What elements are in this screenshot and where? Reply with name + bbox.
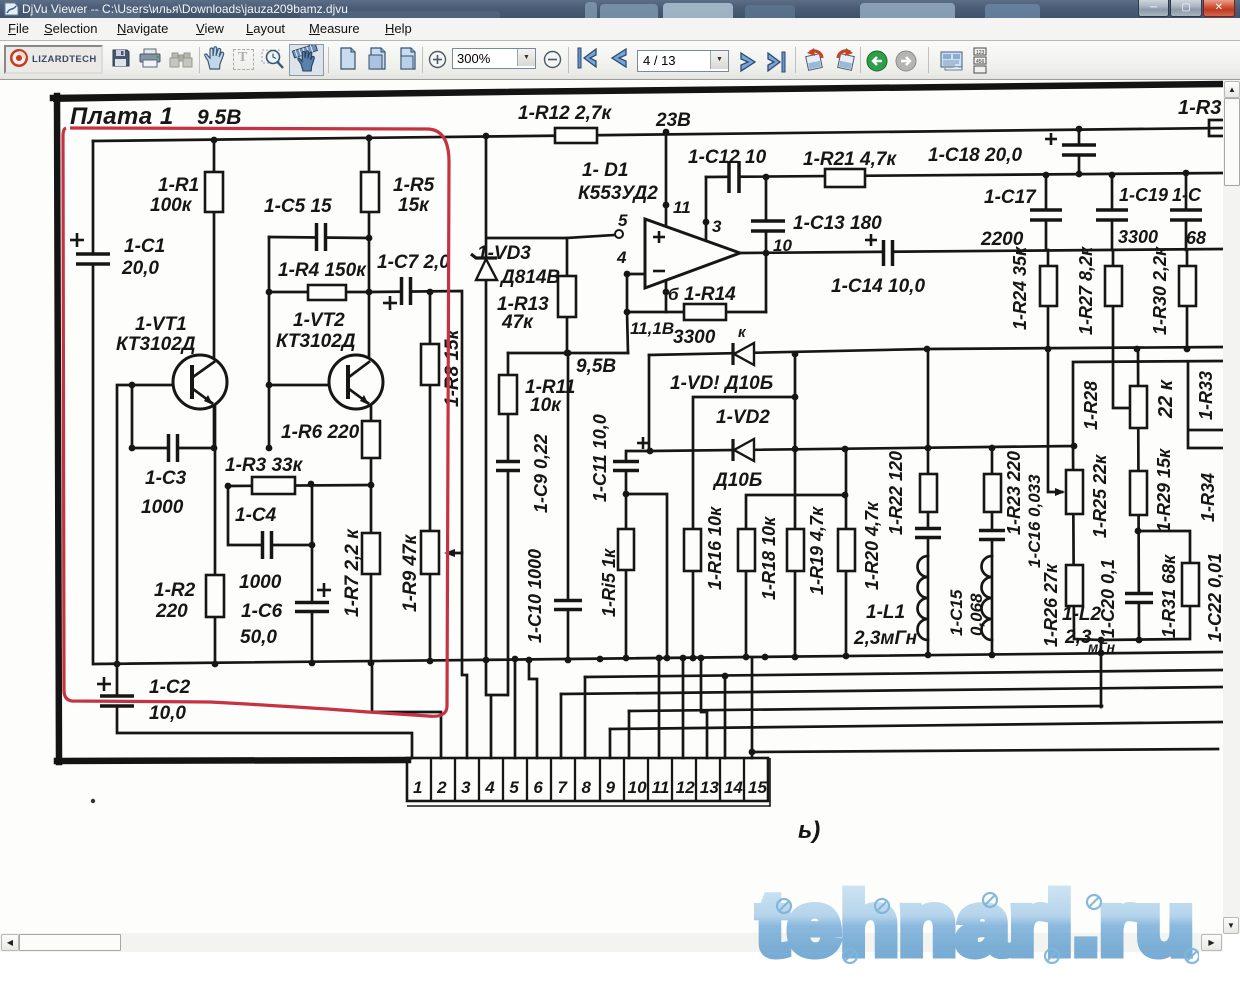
svg-text:1-R24 35к: 1-R24 35к (1010, 246, 1030, 330)
svg-text:1-R1: 1-R1 (158, 175, 199, 196)
wire: pin 12 feed (682, 658, 685, 758)
label VD2 (716, 407, 770, 428)
label C6 value (241, 601, 283, 622)
wire: R24 column with wiper to R25 (1048, 250, 1065, 496)
svg-text:1-R3 33к: 1-R3 33к (225, 455, 304, 476)
label R21 value (803, 149, 897, 170)
svg-text:15: 15 (748, 778, 767, 797)
label L2 value (1064, 627, 1092, 648)
svg-text:1-C1: 1-C1 (124, 236, 165, 257)
label R20 value (862, 501, 882, 590)
resistor R23 (984, 474, 1001, 512)
resistor R31 (1182, 563, 1199, 606)
label R13 value (501, 312, 534, 333)
svg-text:1-С19: 1-С19 (1119, 185, 1168, 205)
label C1 value (124, 236, 165, 257)
svg-text:1-R21 4,7к: 1-R21 4,7к (803, 149, 897, 170)
label C14 value (831, 276, 925, 297)
transistor VT2 (329, 355, 383, 409)
wire: bottom ground rail (94, 650, 1223, 668)
capacitor C5 (317, 223, 326, 251)
svg-text:9.5В: 9.5В (197, 106, 241, 129)
resistor R27 (1105, 266, 1122, 306)
svg-text:10: 10 (773, 236, 792, 255)
svg-text:1-L1: 1-L1 (866, 602, 905, 623)
wire: R20 column (845, 449, 848, 656)
svg-text:1-R5: 1-R5 (393, 175, 435, 196)
label C21 (1172, 185, 1202, 205)
wire: VD1 anode riser (647, 355, 654, 454)
resistor R19 (787, 529, 804, 571)
diode VD2 (733, 439, 754, 461)
resistor R5 (361, 172, 379, 212)
svg-text:1-R20 4,7к: 1-R20 4,7к (862, 501, 882, 590)
svg-text:1-C2: 1-C2 (149, 677, 191, 698)
wire: C21 column (1185, 173, 1188, 250)
capacitor C4 (263, 531, 272, 559)
label R14 (684, 284, 736, 305)
svg-text:1- D1: 1- D1 (582, 160, 628, 181)
capacitor C10 (554, 601, 582, 610)
window title bar (0, 0, 1240, 18)
label R26 value (1041, 563, 1061, 647)
wire: C10 column (567, 353, 570, 660)
wire: op-amp output row (740, 249, 1223, 253)
wire: C4 loop (228, 484, 315, 548)
svg-text:1-С17: 1-С17 (984, 187, 1037, 208)
svg-text:13: 13 (700, 778, 719, 797)
label VT1 type (116, 334, 196, 355)
resistor R13 (558, 276, 576, 317)
wire: C3 branch (129, 385, 214, 451)
wire: pin 13 feed (701, 658, 707, 758)
wire: VD1/R19 column (792, 354, 799, 657)
svg-text:1-C9 0,22: 1-C9 0,22 (531, 434, 551, 513)
capacitor C18 (1045, 133, 1096, 155)
svg-text:50,0: 50,0 (240, 627, 277, 648)
label R22 value (886, 451, 906, 535)
label R24 value (1010, 246, 1030, 330)
label R1 value2 (150, 195, 193, 216)
svg-text:ь): ь) (798, 817, 820, 844)
label L1 value (853, 628, 918, 649)
svg-text:1-R28: 1-R28 (1081, 381, 1101, 430)
svg-text:1-C5 15: 1-C5 15 (264, 196, 332, 217)
label VD3 (477, 243, 531, 264)
capacitor C14 (865, 234, 893, 266)
wire: top supply rail (93, 126, 1223, 144)
label R2 value2 (155, 601, 188, 622)
tehnari.ru watermark (754, 880, 1199, 975)
svg-text:б: б (668, 285, 679, 304)
label C21 value (1186, 228, 1206, 248)
svg-text:1-L2: 1-L2 (1062, 604, 1102, 625)
wire: R25/R26 column (1071, 443, 1101, 640)
label VT1 (135, 314, 187, 335)
svg-text:5: 5 (509, 778, 519, 797)
wire: VD1 rail (continues as right rail) (649, 346, 1223, 358)
menu bar (0, 18, 1240, 41)
label C16 value (1025, 474, 1044, 568)
svg-text:1-R4 150к: 1-R4 150к (278, 260, 367, 281)
svg-text:3300: 3300 (673, 327, 716, 348)
label C10 value (525, 549, 545, 643)
label R23 value (1004, 451, 1024, 535)
svg-text:1-C10 1000: 1-C10 1000 (525, 549, 545, 643)
label C2 value (149, 677, 191, 698)
label R33 (1196, 371, 1216, 420)
resistor R18 (738, 529, 755, 571)
resistor R12 (555, 128, 597, 143)
wire: R4 row (269, 289, 372, 296)
svg-text:3: 3 (712, 217, 722, 236)
wire: C11 / Ri5 column (623, 451, 650, 658)
pin 11 label (673, 198, 691, 217)
wire: bus line A to pins 8 and 14 (585, 670, 1223, 758)
svg-text:1-С11 10,0: 1-С11 10,0 (590, 414, 610, 502)
label C4 value (235, 505, 277, 526)
resistor R4 (308, 285, 346, 300)
label C3 value2 (141, 497, 184, 518)
svg-text:2,3мГн: 2,3мГн (853, 628, 918, 649)
wire: pin 6 feed (529, 660, 537, 758)
svg-text:1-R3: 1-R3 (1178, 97, 1221, 119)
svg-text:КТ3102Д: КТ3102Д (116, 334, 196, 355)
wire: C7 row and R9 wiper feed to pin 3 (369, 291, 467, 758)
svg-text:20,0: 20,0 (121, 258, 159, 279)
wire: C5 row (269, 235, 372, 242)
label R5 value2 (398, 195, 430, 216)
label C20 value (1098, 559, 1118, 638)
svg-text:1-R30 2,2к: 1-R30 2,2к (1150, 246, 1170, 335)
svg-text:0,068: 0,068 (967, 593, 986, 636)
wire: C6 column (311, 545, 314, 663)
svg-text:1-C3: 1-C3 (145, 468, 187, 489)
label D1 (582, 160, 628, 181)
label 9,5В node (576, 356, 616, 377)
wire: bus line C to pin 10 (629, 706, 1102, 758)
capacitor C12 (729, 161, 739, 193)
wire: VT1 emitter / R2 column (214, 404, 217, 664)
capacitor C19 (1096, 210, 1128, 220)
label R4 value (278, 260, 367, 281)
svg-text:Д10Б: Д10Б (712, 470, 762, 491)
horizontal scrollbar (0, 933, 1223, 952)
capacitor C20 (1125, 594, 1153, 603)
inductor L2 (981, 556, 992, 640)
resistor R8 (421, 344, 439, 385)
diode VD1 (733, 343, 754, 365)
svg-text:14: 14 (724, 778, 743, 797)
label C15 value2 (967, 593, 986, 636)
svg-text:6: 6 (533, 778, 543, 797)
svg-text:12: 12 (676, 778, 695, 797)
wire: C19 column (1111, 175, 1114, 250)
wire: bus line D to pin 9 (610, 722, 1223, 758)
label R1 value (158, 175, 199, 196)
svg-text:1: 1 (413, 778, 422, 797)
wire: R11/C9 column to pin 4 tee (507, 353, 510, 695)
wire: R14 row / pin 6 (627, 281, 766, 312)
zener VD3 (471, 254, 497, 280)
svg-text:456: 456 (976, 59, 985, 65)
svg-text:9,5В: 9,5В (576, 356, 616, 377)
wire: bus line E to pin 15 (749, 659, 1218, 758)
label C19 (1119, 185, 1168, 205)
trimmer R9 (421, 531, 439, 574)
label C1 value2 (121, 258, 159, 279)
label R28 value (1155, 379, 1177, 419)
resistor R35 stub at top right edge (1209, 120, 1223, 136)
resistor R7 (362, 533, 380, 574)
svg-text:2: 2 (436, 778, 447, 797)
resistor R6 (362, 421, 380, 458)
pin 4 label (616, 248, 627, 267)
wire: pin 5 feed (512, 656, 519, 758)
svg-text:1-VT1: 1-VT1 (135, 314, 187, 335)
svg-text:4: 4 (616, 248, 627, 267)
capacitor C21 (1170, 210, 1202, 220)
label C5 value (264, 196, 332, 217)
svg-text:3300: 3300 (1118, 227, 1158, 247)
label R11 value (530, 395, 562, 416)
wire: R31 parallel loop (1098, 531, 1190, 643)
resistor R28 (1130, 386, 1147, 428)
svg-text:1000: 1000 (239, 572, 282, 593)
wire: op-amp pin 4 column / R14 left (624, 271, 645, 353)
label C9 value (531, 434, 551, 513)
label R19 value (807, 506, 827, 595)
capacitor C15 (915, 529, 941, 538)
svg-text:1-R2: 1-R2 (154, 580, 196, 601)
resistor R24 (1040, 266, 1057, 306)
svg-text:11: 11 (652, 778, 670, 797)
svg-text:4: 4 (484, 778, 495, 797)
wire: pin 11 feed (656, 655, 663, 758)
red annotation outline (63, 128, 449, 716)
svg-text:1-С14 10,0: 1-С14 10,0 (831, 276, 925, 297)
resistor Ri5 (618, 529, 634, 570)
svg-text:1-С12 10: 1-С12 10 (688, 147, 767, 168)
wire: R23/C16/L2 column (991, 448, 994, 655)
label R14 value k (738, 324, 747, 341)
label C17 (984, 187, 1037, 208)
label R9 value (400, 533, 421, 612)
label VD1 (670, 373, 773, 394)
label C19 value (1118, 227, 1158, 247)
label C22 value (1205, 553, 1225, 642)
wire: R13 bracket (488, 238, 570, 356)
capacitor C1 (70, 233, 110, 264)
label R7 value (342, 528, 363, 617)
label C2 value2 (149, 703, 186, 724)
capacitor C9 (496, 462, 520, 471)
svg-text:1-R26 27к: 1-R26 27к (1041, 563, 1061, 647)
svg-text:1-R14: 1-R14 (684, 284, 736, 305)
label C13 pin10 (773, 236, 792, 255)
label D1 type (578, 183, 658, 204)
svg-text:tehnari.ru: tehnari.ru (756, 880, 1194, 973)
label C15 value (947, 589, 966, 636)
label R16 value (705, 506, 725, 590)
wire: C13 column (763, 177, 770, 312)
pin 5 label (618, 211, 628, 230)
wire: VT1 base to C2 column (117, 382, 412, 758)
wire: op-amp pin 5 lead (567, 230, 623, 238)
wire: R22/C15/L1 column (927, 349, 930, 655)
svg-text:1-Ri5 1к: 1-Ri5 1к (599, 548, 619, 617)
node 9.5В supply label (197, 106, 241, 129)
label C18 value (928, 145, 1022, 166)
svg-text:10к: 10к (530, 395, 562, 416)
label R27 value (1076, 246, 1096, 335)
svg-text:1-R27 8,2к: 1-R27 8,2к (1076, 246, 1096, 335)
handwritten mark (798, 817, 820, 844)
label R18 value (759, 516, 779, 600)
svg-text:10,0: 10,0 (149, 703, 186, 724)
svg-text:1-С16 0,033: 1-С16 0,033 (1025, 474, 1044, 568)
resistor R3 (252, 477, 295, 494)
capacitor C7 (383, 277, 411, 310)
label R30 value (1150, 246, 1170, 335)
page frame bottom-left edge (57, 760, 408, 761)
label L2 (1062, 604, 1102, 625)
wire: left rail (C1 branch) (92, 141, 95, 664)
resistor R1 (205, 172, 223, 212)
svg-text:1-R19 4,7к: 1-R19 4,7к (807, 506, 827, 595)
svg-text:Плата 1: Плата 1 (70, 103, 174, 130)
wire: R28/R29/C20 column (1135, 349, 1143, 643)
wire: VT2 emitter / R6 / R7 column (368, 404, 375, 663)
label R28 (1081, 381, 1101, 430)
label R6 value (281, 422, 360, 443)
svg-text:1-R29 15к: 1-R29 15к (1154, 448, 1174, 532)
wire: bus line B to pin 7 (561, 687, 1223, 758)
capacitor C6 (295, 583, 331, 612)
label R13 (497, 294, 549, 315)
label C3 value (145, 468, 187, 489)
capacitor C2 (97, 677, 134, 706)
svg-text:15к: 15к (398, 195, 430, 216)
pin 3 label (712, 217, 722, 236)
svg-text:1-R6 220: 1-R6 220 (281, 422, 360, 443)
svg-text:22 к: 22 к (1155, 379, 1177, 419)
wire: VT2 base wire (269, 384, 348, 387)
svg-text:1-R22 120: 1-R22 120 (886, 451, 906, 535)
label R31 value (1159, 554, 1179, 638)
svg-text:1-R16 10к: 1-R16 10к (705, 506, 725, 590)
svg-text:11,1В: 11,1В (630, 319, 674, 338)
svg-text:1-С18 20,0: 1-С18 20,0 (928, 145, 1022, 166)
capacitor C11 (613, 437, 649, 471)
svg-text:КТ3102Д: КТ3102Д (276, 331, 356, 352)
label R29 value (1154, 448, 1174, 532)
capacitor C16 (979, 531, 1005, 540)
svg-text:1-VD! Д10Б: 1-VD! Д10Б (670, 373, 773, 394)
wire: VD3 column down to connector pin 4 (486, 136, 507, 758)
svg-text:7: 7 (557, 778, 568, 797)
label C12 value (688, 147, 767, 168)
label R3 value (225, 455, 304, 476)
svg-text:68: 68 (1186, 228, 1206, 248)
label C4 value2 (239, 572, 282, 593)
svg-text:1-С: 1-С (1172, 185, 1202, 205)
label C6 value2 (240, 627, 277, 648)
capacitor C17 (1030, 210, 1062, 220)
label R35 (1178, 97, 1221, 119)
svg-text:1-R9 47к: 1-R9 47к (400, 533, 421, 612)
capacitor C13 (751, 221, 785, 231)
wire: C5/R4 left column (266, 237, 273, 451)
label R25 value (1090, 454, 1110, 538)
wire: 9,5В rail (508, 350, 628, 357)
wire: VD1 inner box / R16 column (693, 397, 795, 658)
pin 6 label (668, 285, 679, 304)
label L1 (866, 602, 905, 623)
svg-text:3: 3 (461, 778, 471, 797)
svg-text:47к: 47к (501, 312, 534, 333)
resistor R21 (825, 169, 865, 187)
svg-text:123: 123 (976, 50, 985, 56)
svg-text:1-R33: 1-R33 (1196, 371, 1216, 420)
resistor R14 (684, 304, 726, 320)
wire: R30 column (1186, 250, 1189, 349)
label C7 value (377, 252, 450, 273)
wire: R18 branch (746, 492, 848, 658)
svg-text:1-С13 180: 1-С13 180 (793, 213, 882, 234)
svg-text:1-С15: 1-С15 (947, 589, 966, 636)
svg-text:1-С22 0,01: 1-С22 0,01 (1205, 553, 1223, 642)
label R5 value (393, 175, 435, 196)
label 11,1В node (630, 319, 674, 338)
capacitor C3 (169, 434, 178, 462)
wire: C17 column (1045, 175, 1048, 250)
svg-text:1-R7 2,2 к: 1-R7 2,2 к (342, 528, 363, 617)
wire: C18 column (1078, 129, 1081, 174)
wire: R34 stub at right edge (1190, 429, 1223, 432)
label 23В node (655, 110, 691, 131)
svg-text:1-R25 22к: 1-R25 22к (1090, 454, 1110, 538)
svg-text:1-R12 2,7к: 1-R12 2,7к (518, 103, 612, 124)
resistor R26 (1066, 565, 1083, 606)
label R11 (525, 377, 575, 398)
svg-text:1-R23 220: 1-R23 220 (1004, 451, 1024, 535)
wire: 23В column to op-amp pin 11 (663, 132, 670, 228)
svg-text:1-R8 15к: 1-R8 15к (442, 328, 463, 407)
svg-text:100к: 100к (150, 195, 193, 216)
label R34 (1198, 473, 1218, 522)
label C13 value (793, 213, 882, 234)
svg-text:1-VT2: 1-VT2 (293, 310, 345, 331)
wire: R33 loop at right edge (1188, 362, 1223, 448)
page frame left edge (57, 96, 59, 762)
wire: R27 column (1113, 250, 1130, 408)
svg-text:220: 220 (155, 601, 188, 622)
svg-text:9: 9 (606, 778, 616, 797)
label R14 value (673, 327, 716, 348)
label VT2 type (276, 331, 356, 352)
op-amp D1 (645, 219, 740, 288)
trimmer R25 (1066, 470, 1083, 514)
svg-text:5: 5 (618, 211, 628, 230)
svg-text:8: 8 (582, 778, 592, 797)
wire: VD2 rail (650, 361, 1223, 452)
wire: op-amp pin 3 drop (703, 177, 710, 240)
label VD3 type (499, 267, 560, 288)
inductor L1 (917, 556, 928, 640)
svg-text:11: 11 (673, 198, 691, 217)
resistor R11 (499, 375, 517, 414)
